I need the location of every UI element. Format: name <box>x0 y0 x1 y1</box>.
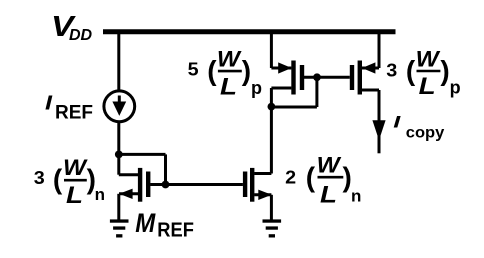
label 3(W/L)p <box>386 46 460 100</box>
svg-text:W: W <box>63 155 88 180</box>
transistor M2 channel bar <box>250 168 254 202</box>
svg-text:I: I <box>393 112 402 131</box>
svg-text:W: W <box>217 47 242 72</box>
wire VDD to PMOS1 source <box>270 32 273 68</box>
svg-text:n: n <box>95 185 105 204</box>
label IREF <box>45 92 93 123</box>
MREF source lead <box>119 192 138 195</box>
PMOS2 source arrow <box>362 62 375 73</box>
svg-text:L: L <box>320 181 337 208</box>
current source IREF <box>104 91 135 122</box>
PMOS1 drain lead <box>271 87 291 90</box>
svg-text:W: W <box>317 153 342 178</box>
ground 1 <box>110 219 129 237</box>
transistor PMOS2 gate bar <box>350 65 354 90</box>
svg-text:3: 3 <box>34 168 45 188</box>
svg-text:(: ( <box>207 55 217 86</box>
svg-text:REF: REF <box>157 219 194 241</box>
transistor PMOS2 channel bar <box>358 61 362 95</box>
wire MREF source to ground <box>117 194 120 220</box>
svg-text:REF: REF <box>55 102 93 123</box>
PMOS1 source arrow <box>278 62 291 73</box>
label 2(W/L)n <box>285 153 361 209</box>
node A junction dot <box>115 151 123 159</box>
wire MREF drain branch horizontal <box>119 173 139 176</box>
wire VDD to PMOS2 source <box>378 32 381 68</box>
wire M2 source to ground <box>270 195 273 220</box>
wire down to gate node B <box>164 154 167 184</box>
wire up to gate node D <box>315 77 318 107</box>
svg-text:n: n <box>351 187 361 206</box>
transistor M2 gate bar <box>243 172 247 198</box>
wire VDD to current source <box>117 32 120 91</box>
node C junction dot <box>268 103 276 111</box>
transistor PMOS1 gate bar <box>300 65 304 90</box>
label VDD <box>51 11 93 44</box>
node D junction dot <box>313 73 321 81</box>
transistor PMOS1 channel bar <box>291 61 295 95</box>
wire PMOS2 drain down <box>378 90 381 153</box>
svg-text:3: 3 <box>386 61 397 81</box>
wire node C right <box>271 106 317 109</box>
wire MREF drain branch vertical <box>117 154 120 174</box>
svg-text:): ) <box>440 55 449 86</box>
label 5(W/L)p <box>188 47 262 101</box>
PMOS2 drain lead <box>362 89 379 92</box>
wire node A right <box>119 153 166 156</box>
svg-text:(: ( <box>53 164 63 195</box>
svg-text:): ) <box>242 55 251 86</box>
wire M2 drain up to node C <box>270 107 273 174</box>
svg-text:L: L <box>419 73 436 100</box>
PMOS1 source lead <box>271 67 291 70</box>
wire current source to node A <box>117 122 120 155</box>
transistor MREF gate bar <box>146 172 150 198</box>
M2 drain lead <box>254 172 271 175</box>
MREF source arrow <box>119 189 132 199</box>
ground 2 <box>263 219 282 237</box>
svg-text:M: M <box>135 208 155 238</box>
label 3(W/L)n left <box>34 155 105 209</box>
svg-text:W: W <box>416 46 441 71</box>
label Icopy <box>393 112 444 141</box>
svg-text:L: L <box>66 182 83 209</box>
gate wire PMOS pair <box>304 76 350 79</box>
svg-text:I: I <box>45 92 53 114</box>
PMOS2 source lead <box>362 67 379 70</box>
svg-text:p: p <box>450 78 461 98</box>
svg-text:5: 5 <box>188 59 199 79</box>
VDD rail <box>103 29 396 34</box>
svg-text:copy: copy <box>406 125 445 142</box>
M2 source arrow <box>258 190 271 200</box>
transistor MREF channel bar <box>138 168 142 202</box>
gate bus wire MREF to M2 <box>150 183 243 186</box>
svg-text:(: ( <box>406 55 416 86</box>
node B junction dot <box>162 181 170 189</box>
svg-text:DD: DD <box>69 27 93 44</box>
svg-text:L: L <box>220 73 237 100</box>
label MREF <box>135 208 194 242</box>
wire PMOS1 drain to node C <box>270 88 273 107</box>
I copy current arrow <box>372 120 385 140</box>
svg-text:p: p <box>251 78 262 98</box>
svg-text:2: 2 <box>285 167 296 187</box>
svg-text:(: ( <box>306 161 316 192</box>
M2 source lead <box>254 193 271 196</box>
